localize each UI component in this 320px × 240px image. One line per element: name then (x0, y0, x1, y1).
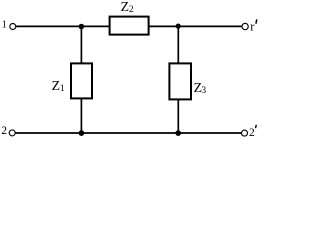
junction node D (bottom of Z3) (175, 130, 181, 136)
wire top-left (terminal 1 to node A) (16, 25, 110, 27)
wire bottom (terminal 2 to terminal 2') (15, 132, 241, 134)
svg-text:2: 2 (249, 127, 255, 139)
junction node B (top of Z3) (176, 24, 181, 29)
svg-text:1: 1 (2, 20, 7, 31)
svg-text:2: 2 (1, 125, 7, 137)
label terminal r' (prime) (250, 19, 257, 33)
label terminal 2 (1, 125, 7, 137)
wire Z3 branch lower (177, 99, 179, 133)
terminal 2 (open circle, bottom-left) (9, 130, 15, 136)
wire Z3 branch upper (177, 26, 179, 63)
svg-text:3: 3 (201, 86, 206, 96)
wire top-right (Z2 to terminal 1') (149, 25, 242, 27)
wire Z1 branch lower (80, 98, 82, 133)
value label Z3 (194, 80, 207, 96)
svg-text:Z: Z (52, 78, 60, 93)
svg-text:Z: Z (121, 0, 129, 14)
svg-text:2: 2 (129, 5, 134, 15)
junction node C (bottom of Z1) (79, 130, 85, 136)
value label Z1 (52, 78, 65, 94)
svg-text:1: 1 (60, 84, 65, 94)
impedance Z3 (box) (169, 63, 191, 99)
svg-text:r: r (250, 19, 255, 33)
label terminal 2' (prime) (249, 125, 256, 139)
label terminal 1 (2, 20, 7, 31)
impedance Z1 (box) (71, 63, 92, 98)
impedance Z2 (box) (110, 17, 149, 35)
value label Z2 (121, 0, 134, 15)
terminal 2' (open circle, bottom-right) (242, 130, 248, 136)
junction node A (top of Z1) (79, 24, 85, 30)
terminal 1' (open circle, top-right) (242, 23, 248, 29)
terminal 1 (open circle, top-left) (10, 24, 16, 30)
wire Z1 branch upper (80, 26, 82, 63)
